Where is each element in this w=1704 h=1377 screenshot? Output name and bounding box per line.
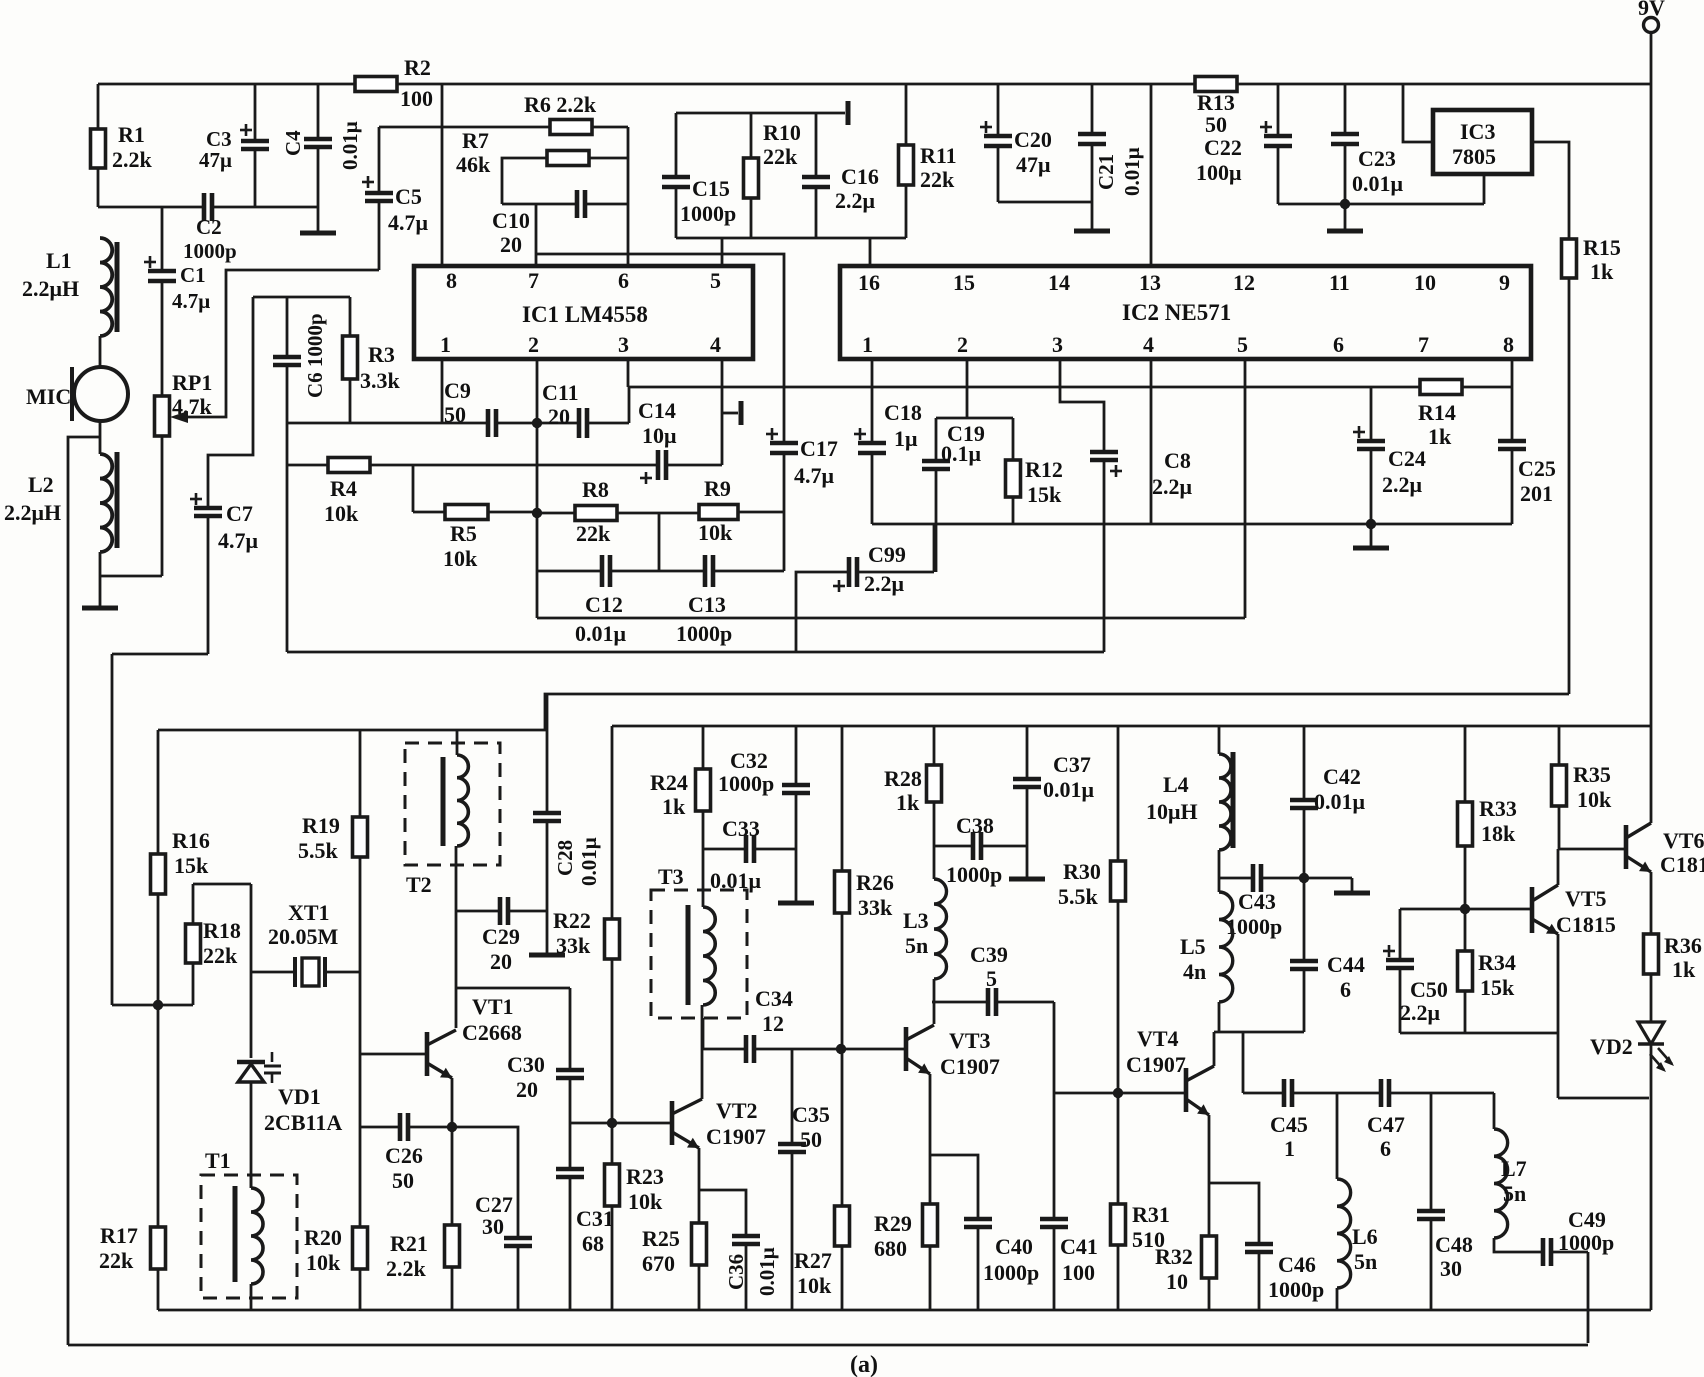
svg-text:6: 6 (1333, 332, 1344, 357)
capacitor C33 (703, 848, 746, 851)
svg-text:6: 6 (618, 268, 629, 293)
resistor R31 (1117, 1093, 1120, 1204)
svg-text:VT6: VT6 (1663, 828, 1704, 853)
wire IC2 pin4 column (1150, 359, 1153, 524)
svg-text:R34: R34 (1478, 950, 1516, 975)
svg-text:5: 5 (1237, 332, 1248, 357)
svg-text:2.2k: 2.2k (386, 1256, 427, 1281)
svg-text:T1: T1 (205, 1148, 231, 1173)
svg-text:C99: C99 (868, 542, 906, 567)
svg-text:2.2μ: 2.2μ (1152, 474, 1193, 499)
svg-text:201: 201 (1520, 481, 1553, 506)
svg-text:100μ: 100μ (1196, 160, 1242, 185)
svg-text:13: 13 (1139, 270, 1161, 295)
resistor R34 (1464, 909, 1467, 951)
wire C6 node to C7 (208, 297, 253, 508)
svg-text:33k: 33k (858, 895, 893, 920)
svg-text:0.01μ: 0.01μ (577, 837, 601, 886)
resistor R6 (442, 126, 550, 129)
svg-text:14: 14 (1048, 270, 1070, 295)
capacitor C19 (935, 418, 938, 461)
wiper arrow of RP1 (170, 411, 188, 423)
wire C43 junction to ground (1304, 877, 1352, 880)
wire VT4 collector column (1213, 1032, 1216, 1066)
svg-text:10k: 10k (698, 520, 733, 545)
svg-text:100: 100 (1062, 1260, 1095, 1285)
transistor VT3 (904, 1027, 909, 1071)
resistor R21 (445, 1225, 460, 1267)
svg-text:4n: 4n (1183, 959, 1206, 984)
capacitor C24 (1370, 387, 1373, 441)
resistor R4 (328, 458, 370, 473)
svg-text:0.01μ: 0.01μ (1043, 777, 1095, 802)
svg-text:R21: R21 (390, 1231, 428, 1256)
capacitor C11 (577, 408, 582, 438)
svg-text:1: 1 (440, 332, 451, 357)
wire input node B horizontal (98, 206, 204, 209)
svg-text:4.7μ: 4.7μ (388, 210, 429, 235)
svg-text:R28: R28 (884, 766, 922, 791)
svg-text:10k: 10k (1577, 787, 1612, 812)
svg-text:C38: C38 (956, 813, 994, 838)
capacitor C1 (161, 207, 164, 271)
svg-text:3: 3 (618, 332, 629, 357)
svg-text:(a): (a) (850, 1352, 878, 1377)
svg-text:0.01μ: 0.01μ (338, 121, 362, 170)
svg-text:R17: R17 (100, 1223, 138, 1248)
transformer T3 (651, 890, 747, 1018)
resistor R17 (157, 1005, 160, 1227)
svg-text:2.2μH: 2.2μH (4, 500, 61, 525)
wire VT1 collector tap to C30 (456, 987, 570, 990)
svg-text:16: 16 (858, 270, 880, 295)
svg-text:22k: 22k (203, 943, 238, 968)
wire C99 left leg (796, 572, 849, 652)
crystal XT1 (251, 971, 295, 974)
svg-text:R26: R26 (856, 870, 894, 895)
resistor R35 (1558, 726, 1561, 765)
svg-text:R14: R14 (1418, 400, 1456, 425)
svg-text:C30: C30 (507, 1052, 545, 1077)
svg-text:C16: C16 (841, 164, 879, 189)
resistor R28 (933, 726, 936, 765)
svg-text:2.2μ: 2.2μ (864, 571, 905, 596)
capacitor C5 (378, 201, 381, 270)
inductor L2 (100, 454, 112, 552)
node R16 junction (153, 1000, 163, 1010)
svg-text:L5: L5 (1180, 934, 1206, 959)
svg-text:C18: C18 (884, 400, 922, 425)
svg-text:R15: R15 (1583, 235, 1621, 260)
node VT5 base junction (1460, 904, 1470, 914)
resistor R12 (1012, 418, 1015, 460)
resistor R20 (353, 1227, 368, 1269)
regulator IC3 7805 (1433, 110, 1532, 174)
svg-text:1000p: 1000p (676, 621, 732, 646)
svg-text:C49: C49 (1568, 1207, 1606, 1232)
svg-text:VT4: VT4 (1137, 1026, 1179, 1051)
inductor L3 (933, 846, 936, 879)
svg-text:50: 50 (392, 1168, 414, 1193)
svg-text:R33: R33 (1479, 796, 1517, 821)
svg-text:R23: R23 (626, 1164, 664, 1189)
diode VD2 LED (1638, 1022, 1664, 1044)
svg-text:0.01μ: 0.01μ (575, 621, 627, 646)
transformer T2 (405, 743, 500, 865)
svg-text:2: 2 (528, 332, 539, 357)
svg-text:R16: R16 (172, 828, 210, 853)
wire C11 up to pin3 node (628, 387, 631, 423)
ground sideways right of R10 top (846, 101, 851, 125)
node VT4 base junction (1113, 1088, 1123, 1098)
svg-text:5n: 5n (1503, 1181, 1526, 1206)
svg-text:0.01μ: 0.01μ (1352, 171, 1404, 196)
wire IC1 pin3 column and Y387 run (627, 359, 630, 387)
svg-text:22k: 22k (763, 144, 798, 169)
svg-text:1000p: 1000p (680, 201, 736, 226)
resistor R3 (349, 297, 352, 336)
svg-text:R35: R35 (1573, 762, 1611, 787)
capacitor C30 (569, 988, 572, 1070)
wire R5 drop (412, 465, 415, 512)
capacitor C42 (1303, 726, 1306, 800)
svg-text:R27: R27 (794, 1248, 832, 1273)
svg-text:C17: C17 (800, 436, 838, 461)
svg-text:50: 50 (800, 1127, 822, 1152)
wire 9V column down to bottom section rail (1650, 84, 1653, 726)
wire VT2 collector column (701, 1005, 704, 1099)
svg-text:C29: C29 (482, 924, 520, 949)
svg-text:C6 1000p: C6 1000p (303, 313, 327, 398)
svg-text:7: 7 (528, 268, 539, 293)
svg-text:1k: 1k (896, 790, 920, 815)
ground below C37 (1009, 877, 1045, 882)
wire VT5 emitter row to VD2 column (1558, 1097, 1649, 1100)
resistor R23 (605, 1164, 620, 1206)
wire IC2 pin3 column to C8 (1060, 359, 1104, 452)
svg-text:C1907: C1907 (940, 1054, 1000, 1079)
svg-text:0.01μ: 0.01μ (1120, 147, 1144, 196)
svg-text:47μ: 47μ (1016, 152, 1051, 177)
capacitor C8 (1090, 450, 1118, 455)
svg-text:15k: 15k (1027, 482, 1062, 507)
svg-text:680: 680 (874, 1236, 907, 1261)
svg-text:VD1: VD1 (278, 1084, 321, 1109)
svg-text:5n: 5n (1354, 1249, 1377, 1274)
svg-text:4.7μ: 4.7μ (218, 528, 259, 553)
wire C12 C13 row (537, 570, 602, 573)
resistor R15 (1562, 239, 1577, 278)
wire VT1 collector column (455, 846, 458, 1028)
svg-text:C1815: C1815 (1556, 912, 1616, 937)
resistor R22 (611, 726, 614, 919)
svg-text:RP1: RP1 (172, 370, 212, 395)
wire IC1 pin 5 column (721, 238, 724, 266)
capacitor C17 (783, 387, 786, 443)
svg-text:C21: C21 (1094, 154, 1118, 190)
inductor L1 (100, 238, 112, 336)
svg-text:C45: C45 (1270, 1112, 1308, 1137)
ground below MIC branch (82, 606, 118, 611)
svg-text:7805: 7805 (1452, 144, 1496, 169)
svg-text:3: 3 (1052, 332, 1063, 357)
svg-text:1000p: 1000p (183, 239, 237, 263)
ground sideways at pin4 (722, 412, 738, 415)
node pin2 junction (532, 418, 542, 428)
wire Y618 link (537, 617, 1245, 620)
svg-text:15: 15 (953, 270, 975, 295)
svg-text:5.5k: 5.5k (298, 838, 339, 863)
wire rail CE upper (158, 694, 1569, 730)
svg-text:C4: C4 (281, 130, 305, 156)
svg-text:1000p: 1000p (1268, 1277, 1324, 1302)
capacitor C41 (1040, 1217, 1068, 1222)
svg-text:1k: 1k (1428, 424, 1452, 449)
node Y525 ground junction (1366, 519, 1376, 529)
wire T1 coil top stub (250, 1175, 253, 1188)
ground below C32 (778, 901, 814, 906)
inductor L4 (1218, 726, 1221, 754)
wire top supply rail right of R2 (397, 83, 1651, 86)
resistor R32 (1202, 1236, 1217, 1278)
wire IC2 pin5 column (1244, 359, 1247, 618)
svg-text:10k: 10k (324, 501, 359, 526)
resistor R7 (547, 151, 589, 166)
svg-text:C48: C48 (1435, 1232, 1473, 1257)
svg-text:C28: C28 (553, 840, 577, 876)
wire IC1 pin4 column (721, 359, 724, 465)
resistor R2 (355, 77, 397, 92)
svg-text:5n: 5n (905, 933, 928, 958)
svg-text:10μ: 10μ (642, 423, 677, 448)
potentiometer RP1 (155, 396, 170, 436)
svg-text:C40: C40 (995, 1234, 1033, 1259)
resistor R27 (841, 1049, 844, 1206)
wire VT5 base row (1400, 908, 1532, 911)
svg-text:1: 1 (862, 332, 873, 357)
node junction C23 ground (1340, 199, 1350, 209)
wire VD2 to ground rail (1650, 1044, 1653, 1310)
resistor R25 (692, 1223, 707, 1265)
capacitor C47 (1379, 1079, 1384, 1107)
svg-text:R24: R24 (650, 770, 688, 795)
wire IC3 output to R15 (1532, 142, 1569, 239)
svg-text:3.3k: 3.3k (360, 368, 401, 393)
svg-text:C2668: C2668 (462, 1020, 522, 1045)
wire VT1 emitter column (451, 1078, 454, 1225)
capacitor C3 (254, 84, 257, 141)
svg-text:C32: C32 (730, 748, 768, 773)
svg-text:2.2k: 2.2k (112, 147, 153, 172)
svg-text:0.1μ: 0.1μ (941, 441, 982, 466)
capacitor C26 (360, 1126, 400, 1129)
wire B long bottom link (287, 651, 1104, 654)
svg-text:C7: C7 (226, 501, 253, 526)
svg-text:MIC: MIC (26, 384, 71, 409)
svg-text:1000p: 1000p (718, 771, 774, 796)
svg-text:L4: L4 (1163, 772, 1189, 797)
wire C32 column to ground (795, 849, 798, 903)
svg-text:11: 11 (1329, 270, 1350, 295)
ground below C21 (1074, 229, 1110, 234)
svg-text:R6 2.2k: R6 2.2k (524, 92, 597, 117)
svg-text:12: 12 (762, 1011, 784, 1036)
svg-text:C13: C13 (688, 592, 726, 617)
wire L2 to ground (99, 552, 102, 608)
svg-text:1000p: 1000p (983, 1260, 1039, 1285)
resistor R19 (359, 730, 362, 817)
svg-text:L7: L7 (1501, 1156, 1527, 1181)
resistor R11 (905, 84, 908, 145)
wire VT6 collector column (1650, 726, 1653, 823)
capacitor C45 (1243, 1092, 1284, 1095)
capacitor C14 (656, 450, 661, 480)
resistor R26 (841, 726, 844, 871)
svg-text:10k: 10k (306, 1250, 341, 1275)
wire VT4 base row (1054, 1092, 1186, 1095)
svg-text:33k: 33k (556, 933, 591, 958)
diode VD1 (238, 1064, 264, 1082)
capacitor C4 (317, 84, 320, 139)
capacitor C23 (1344, 84, 1347, 134)
capacitor C10 (502, 203, 577, 206)
capacitor C15 (675, 113, 678, 177)
inductor L7 (1493, 1093, 1496, 1129)
capacitor C16 (815, 113, 818, 177)
svg-text:R1: R1 (118, 122, 145, 147)
transistor VT5 (1530, 887, 1535, 933)
svg-text:C44: C44 (1327, 952, 1365, 977)
wire C19 R12 box top (936, 417, 1013, 420)
svg-text:T3: T3 (658, 864, 684, 889)
wire R3 C6 top (253, 296, 350, 299)
svg-text:T2: T2 (406, 872, 432, 897)
svg-text:IC1 LM4558: IC1 LM4558 (522, 302, 648, 327)
wire C45 row drop (1242, 1032, 1245, 1093)
resistor R10 (750, 113, 753, 158)
wire C15 R10 top wire (676, 112, 845, 115)
svg-text:R32: R32 (1155, 1244, 1193, 1269)
resistor R33 (1464, 726, 1467, 802)
node 9V terminal (1644, 18, 1659, 33)
wire R8 R9 middle tap (658, 513, 661, 571)
svg-text:2.2μ: 2.2μ (1382, 472, 1423, 497)
svg-text:VT3: VT3 (949, 1028, 991, 1053)
svg-text:1: 1 (1284, 1136, 1295, 1161)
resistor R14 (1420, 380, 1462, 395)
svg-text:5: 5 (710, 268, 721, 293)
svg-text:5.5k: 5.5k (1058, 884, 1099, 909)
svg-text:6: 6 (1380, 1136, 1391, 1161)
svg-text:C39: C39 (970, 942, 1008, 967)
svg-text:C50: C50 (1410, 977, 1448, 1002)
svg-text:10k: 10k (443, 546, 478, 571)
capacitor C13 (703, 555, 708, 587)
resistor R1 (97, 84, 100, 129)
svg-text:VT2: VT2 (716, 1098, 758, 1123)
svg-text:22k: 22k (576, 521, 611, 546)
svg-text:50: 50 (1205, 112, 1227, 137)
capacitor C7 (190, 498, 202, 501)
capacitor C25 (1511, 359, 1514, 441)
wire VT6 emitter column (1650, 872, 1653, 934)
svg-text:C22: C22 (1204, 135, 1242, 160)
svg-text:L6: L6 (1352, 1224, 1378, 1249)
wire R3 C6 bottom to C9 wire (287, 422, 442, 425)
node C43 junction (1299, 873, 1309, 883)
wire R4 feed column (286, 423, 289, 652)
svg-text:46k: 46k (456, 152, 491, 177)
svg-text:C31: C31 (576, 1206, 614, 1231)
svg-text:1k: 1k (1672, 957, 1696, 982)
wire IC1 pin2 column (536, 359, 539, 618)
svg-text:1000p: 1000p (1558, 1230, 1614, 1255)
capacitor C48 (1430, 1093, 1433, 1211)
inductor L6 (1336, 1093, 1339, 1179)
svg-text:1k: 1k (1590, 259, 1614, 284)
svg-text:6: 6 (1340, 977, 1351, 1002)
resistor R9 (699, 505, 738, 520)
resistor R24 (702, 726, 705, 769)
capacitor C31 (556, 1167, 584, 1172)
node VT1 emitter junction (447, 1122, 457, 1132)
svg-text:2: 2 (957, 332, 968, 357)
svg-text:C42: C42 (1323, 764, 1361, 789)
svg-text:C33: C33 (722, 816, 760, 841)
svg-text:C9: C9 (444, 378, 471, 403)
svg-text:R22: R22 (553, 908, 591, 933)
svg-text:20: 20 (490, 949, 512, 974)
svg-text:R5: R5 (450, 521, 477, 546)
wire IC3 ground pin (1483, 174, 1486, 204)
svg-text:C20: C20 (1014, 127, 1052, 152)
svg-text:0.01μ: 0.01μ (710, 868, 762, 893)
node VT3 base junction (836, 1044, 846, 1054)
wire bottom ground rail (158, 1309, 1651, 1312)
svg-text:0.01μ: 0.01μ (1314, 789, 1366, 814)
svg-text:9V: 9V (1638, 0, 1665, 20)
capacitor C36 (732, 1234, 760, 1239)
svg-text:2CB11A: 2CB11A (264, 1110, 342, 1135)
capacitor C40 (964, 1217, 992, 1222)
svg-text:12: 12 (1233, 270, 1255, 295)
wire emitter to C27 (452, 1127, 518, 1238)
svg-text:C24: C24 (1388, 446, 1426, 471)
wire IC1 pin 8 column (441, 84, 444, 264)
svg-text:2.2μ: 2.2μ (835, 188, 876, 213)
wire RP1 bottom to MIC column (100, 575, 162, 578)
wire left boundary branch (68, 437, 100, 1345)
wire VT2 base wire (570, 1122, 672, 1125)
svg-text:VT5: VT5 (1565, 886, 1607, 911)
svg-text:9: 9 (1499, 270, 1510, 295)
capacitor C50 (1399, 909, 1402, 960)
svg-text:1000p: 1000p (946, 862, 1002, 887)
resistor R8 (537, 512, 575, 515)
svg-text:20.05M: 20.05M (268, 924, 339, 949)
svg-text:R2: R2 (404, 55, 431, 80)
svg-text:C26: C26 (385, 1143, 423, 1168)
svg-text:R31: R31 (1132, 1202, 1170, 1227)
resistor R16 (157, 730, 160, 854)
svg-text:0.01μ: 0.01μ (755, 1247, 779, 1296)
wire rail D lower (612, 725, 1651, 728)
svg-text:R19: R19 (302, 813, 340, 838)
resistor R5 (445, 505, 488, 520)
wire C7 bottom to left column (112, 653, 208, 656)
transformer T1 (201, 1175, 297, 1298)
ground below C28 (529, 953, 565, 958)
